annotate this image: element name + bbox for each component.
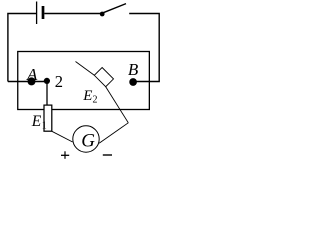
svg-text:E: E <box>31 113 42 130</box>
svg-text:2: 2 <box>55 72 63 91</box>
svg-text:E: E <box>82 88 92 104</box>
svg-text:1: 1 <box>42 120 47 131</box>
svg-text:B: B <box>128 60 139 79</box>
svg-text:G: G <box>81 131 95 152</box>
svg-text:A: A <box>26 65 38 84</box>
svg-text:2: 2 <box>93 95 98 106</box>
